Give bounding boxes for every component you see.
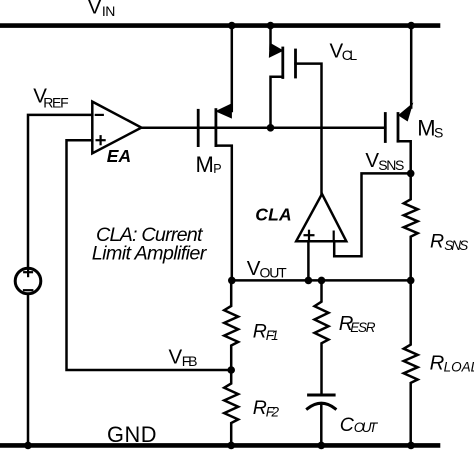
svg-text:REF: REF (43, 94, 68, 110)
op-amp CLA (296, 194, 346, 241)
MS source wire to VIN (410, 26, 413, 108)
wire: EA output to MP gate and MS gate (gate node) (141, 127, 385, 130)
label VREF (33, 85, 68, 111)
wire: COUT to GND (320, 404, 323, 445)
transistor MS gate bar (384, 114, 387, 142)
EA inverting input marker (96, 114, 103, 116)
svg-text:V: V (169, 346, 183, 369)
label COUT (340, 414, 379, 436)
wire: VREF source to EA inverting input (28, 115, 92, 269)
svg-text:V: V (88, 0, 102, 19)
svg-text:M: M (196, 152, 214, 177)
svg-text:IN: IN (102, 3, 116, 19)
voltage source VREF (15, 268, 41, 294)
power rail VIN (0, 23, 438, 28)
MCL source arrow (269, 43, 282, 57)
svg-text:R: R (430, 230, 444, 252)
svg-text:ESR: ESR (350, 320, 375, 335)
wire: VREF source to GND (27, 294, 30, 446)
capacitor COUT (307, 395, 335, 409)
MS drain wire to VSNS node (398, 141, 411, 173)
junction: CLA plus input at VOUT (305, 277, 313, 285)
label RF2 (253, 397, 280, 420)
MP drain wire to VOUT (216, 146, 232, 281)
svg-text:F1: F1 (266, 328, 279, 343)
wire: VSNS node to CLA inverting input (334, 173, 411, 256)
label VFB (169, 346, 198, 369)
junction: MS source at VIN rail (407, 22, 415, 30)
junction: RLOAD at GND rail (407, 442, 415, 450)
svg-text:SNS: SNS (444, 238, 468, 253)
junction: VREF source at GND rail (24, 442, 32, 450)
svg-text:Limit Amplifier: Limit Amplifier (92, 242, 208, 264)
label RESR (339, 313, 376, 335)
transistor MP channel bar (214, 110, 217, 146)
transistor MCL channel bar (281, 48, 284, 78)
label MP (196, 152, 222, 177)
svg-text:FB: FB (182, 353, 198, 369)
svg-text:V: V (365, 149, 379, 172)
transistor MS channel bar (397, 114, 400, 142)
svg-text:CLA: CLA (255, 205, 292, 225)
junction: RSNS/RLOAD at VOUT (407, 277, 415, 285)
svg-text:S: S (434, 124, 443, 140)
junction: MCL drain at gate node (267, 124, 275, 132)
op-amp EA (92, 102, 141, 154)
svg-text:R: R (253, 321, 267, 343)
MP source arrow (216, 104, 231, 118)
svg-text:P: P (213, 162, 221, 176)
label VCL (330, 39, 358, 62)
svg-text:LOAD: LOAD (444, 359, 474, 374)
junction: MCL source at VIN rail (267, 22, 275, 30)
resistor RSNS (404, 173, 418, 280)
svg-text:OUT: OUT (260, 265, 288, 281)
transistor MP gate bar (197, 110, 200, 145)
EA non-inverting input marker (97, 136, 105, 144)
CLA non-inverting input marker (305, 231, 314, 240)
MS source arrow (399, 105, 412, 121)
label MS (417, 116, 443, 141)
wire: MCL gate to CLA output (VCL) (296, 64, 322, 194)
svg-text:CL: CL (342, 47, 358, 63)
CLA inverting input marker (333, 232, 335, 240)
svg-text:R: R (430, 353, 445, 375)
junction: node VSNS (407, 170, 415, 178)
svg-text:M: M (417, 116, 435, 141)
ground rail GND (0, 443, 438, 448)
svg-text:SNS: SNS (378, 157, 404, 173)
label RLOAD (430, 353, 474, 375)
label RSNS (430, 230, 468, 253)
label RF1 (253, 321, 279, 343)
label VSNS (365, 149, 404, 173)
junction: node VFB (227, 366, 235, 374)
wire: VOUT node line (232, 279, 411, 282)
label VOUT (247, 257, 287, 280)
resistor RF2 (224, 370, 238, 445)
junction: RESR branch at VOUT (318, 277, 326, 285)
svg-text:GND: GND (107, 422, 157, 447)
label VIN (88, 0, 116, 19)
MCL drain wire to gate node (271, 77, 283, 128)
MCL source wire from VIN (271, 26, 275, 49)
wire: VFB node to EA non-inverting input (67, 140, 232, 370)
resistor RF1 (224, 280, 238, 370)
junction: RF2 at GND rail (227, 442, 235, 450)
MP source wire to VIN (222, 26, 232, 111)
junction: MP source at VIN rail (228, 22, 236, 30)
junction: MP drain at VOUT node (228, 277, 236, 285)
svg-text:F2: F2 (266, 405, 280, 420)
resistor RESR (315, 280, 329, 393)
svg-text:EA: EA (107, 146, 131, 166)
resistor RLOAD (404, 280, 418, 445)
svg-text:OUT: OUT (354, 420, 379, 435)
svg-text:R: R (253, 397, 267, 419)
junction: COUT at GND rail (318, 442, 326, 450)
wire: CLA non-inverting input to VOUT (307, 241, 310, 280)
transistor MCL gate bar (294, 50, 297, 77)
svg-text:C: C (340, 414, 355, 436)
